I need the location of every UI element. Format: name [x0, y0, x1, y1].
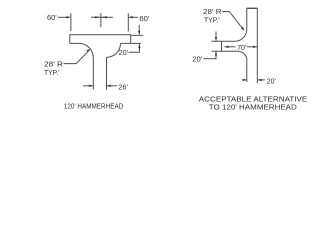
dimension 20' stub upper arrow: [215, 32, 217, 42]
alternative stub top edge: [211, 40, 234, 42]
radius leader right: [222, 12, 244, 32]
hammerhead left fillet: [79, 43, 93, 57]
radius leader left: [64, 49, 91, 64]
alternative road left wall upper: [246, 8, 248, 29]
svg-text:TYP.': TYP.': [204, 16, 220, 25]
alternative lower fillet: [238, 51, 247, 60]
svg-text:20': 20': [119, 48, 129, 57]
hammerhead stem left wall: [92, 58, 94, 90]
extension line bar bottom right: [131, 42, 141, 44]
hammerhead stem right wall: [106, 57, 108, 89]
alternative stub end cap: [221, 41, 223, 51]
svg-text:TO 120' HAMMERHEAD: TO 120' HAMMERHEAD: [209, 103, 297, 112]
dimension 20' stub lower arrow and hook: [204, 51, 218, 58]
extension tick center: [100, 13, 102, 27]
svg-text:20': 20': [267, 77, 277, 86]
alternative road left wall lower: [246, 60, 248, 82]
svg-text:26': 26': [118, 82, 128, 91]
dimension 20' bottom left arrow: [243, 79, 247, 81]
extension tick right: [127, 13, 129, 31]
extension line bar top right: [131, 34, 143, 36]
svg-text:60': 60': [47, 13, 57, 22]
dimension 70' left arrow: [224, 46, 235, 48]
alternative road right wall: [256, 8, 258, 83]
svg-text:120' HAMMERHEAD: 120' HAMMERHEAD: [64, 101, 124, 110]
dimension 20' top-right upper arrow: [138, 25, 140, 35]
extension tick left: [70, 13, 72, 31]
svg-text:70': 70': [237, 43, 247, 52]
svg-text:20': 20': [192, 55, 203, 64]
dimension 26' right arrow: [107, 85, 117, 87]
alternative road top cap: [247, 7, 257, 9]
dimension 60' left arrow: [58, 16, 71, 18]
hammerhead top bar outline: [70, 35, 131, 44]
alternative stub bottom edge: [211, 50, 238, 52]
dimension 60' center arrows: [91, 16, 113, 18]
dimension 70' right arrow: [247, 46, 258, 48]
dimension 20' top-right lower arrow and hook: [129, 44, 141, 52]
dimension 60' right arrow: [129, 16, 139, 18]
alternative upper fillet: [235, 29, 247, 41]
dimension 26' left arrow: [83, 85, 93, 87]
svg-text:60': 60': [139, 14, 150, 23]
svg-text:TYP.': TYP.': [44, 68, 60, 77]
dimension 20' bottom right arrow: [258, 79, 265, 81]
hammerhead right fillet: [107, 43, 121, 57]
